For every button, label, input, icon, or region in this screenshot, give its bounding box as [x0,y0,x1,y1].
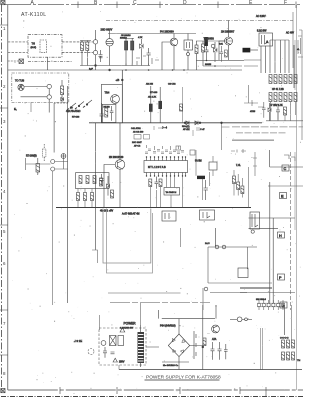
bridge rectifier BR1 [168,334,189,357]
connector pin P1 [93,40,97,44]
diode column D5 [268,103,271,121]
resistor R21 [294,93,297,102]
warning triangle 1 [120,328,125,332]
resistor R22 [284,107,287,115]
output loop L4 [103,209,151,264]
wire left loop: h y283 [208,282,272,284]
svg-text:AC 120V: AC 120V [256,15,266,18]
transformer T2 secondary lines [260,328,262,370]
svg-text:CP 4L 7.2B: CP 4L 7.2B [272,89,284,91]
svg-text:C2 C22: C2 C22 [168,84,176,86]
wire h y228.7 [249,228,279,230]
svg-text:A·AT 4M2·AT 4M: A·AT 4M2·AT 4M [122,213,140,216]
connector tab H [278,232,285,238]
wire h y218 [249,217,296,219]
wire x221.5 stub [222,123,230,150]
electrolytic C6 [131,41,134,50]
wire bridge top rail [162,318,215,320]
svg-text:5.2Ω 5W: 5.2Ω 5W [257,30,267,33]
wire x101.6 up [101,103,103,108]
output line L7 [110,302,210,304]
wire feed x140 from above [140,303,142,325]
bus vertical 5 [280,40,282,73]
capacitor C9 [220,46,224,62]
svg-text:4.7K: 4.7K [138,37,143,39]
transistor Q2 [170,38,178,46]
junction ticks row [126,56,159,66]
wire feeds right x284 [283,305,285,335]
connector pin P3 [47,84,51,88]
wire heavy h y288 [240,287,272,289]
faint vertical x181 [182,87,184,123]
wire +B node [121,70,123,123]
wire IC bottom drops [150,177,182,208]
resistor R2 [86,42,89,51]
svg-text:2SD 880Y: 2SD 880Y [101,28,113,32]
electrolytic C5 [125,41,128,50]
wire Q2 leads [162,34,174,71]
resistor R43 [93,176,96,184]
svg-text:AC 40V: AC 40V [286,32,294,35]
output line L6 [108,292,181,294]
inner bias box [102,104,116,122]
small rect part1 [134,135,141,140]
svg-text:C: C [133,0,137,6]
bus vertical 2 [265,46,267,73]
connector tab 2 [280,302,287,308]
svg-text:TM: TM [297,360,300,362]
transistor Q4 [111,95,120,104]
svg-text:RH+(C): RH+(C) [182,126,190,128]
resistor R37 [237,182,240,190]
wire v x295 [294,152,296,230]
capacitor C2 [99,56,103,58]
svg-text:AT·C2: AT·C2 [134,145,141,148]
resistor R8 [225,50,228,57]
resistor R23 [61,86,64,95]
marks row x230-247 [231,149,246,153]
svg-text:C 47: C 47 [200,129,205,131]
thermistor TH1 inner dashed body [40,40,46,53]
svg-text:C: C [284,167,287,171]
bus vertical 7 [288,40,290,73]
connector tab E [280,193,287,199]
wire v x202.8 [202,305,204,370]
rectifier D11 [287,340,290,348]
svg-text:RT·103: RT·103 [150,92,158,94]
svg-text:42A PB·AT&C: 42A PB·AT&C [66,110,81,113]
junction dots bridge [202,346,204,348]
connector row hatch [257,303,285,307]
resistor R7 [202,44,205,52]
svg-text:PH 2SD880: PH 2SD880 [160,30,174,34]
thermistor box TH1 (dash-dot) [28,35,62,58]
capacitor C1 [99,50,103,62]
capacitor C16 [155,177,159,189]
junction dot bus [109,69,111,71]
svg-text:POWER: POWER [124,322,137,326]
input box dash-dot (TO TUB) [12,73,69,103]
resistor R40 [203,338,206,346]
wire v x269.8 [269,182,271,303]
wire M1 to P3 [24,86,47,88]
wire P5 row [55,158,68,169]
svg-text:H: H [279,234,282,238]
svg-text:2SC 1047: 2SC 1047 [132,142,143,144]
bus vertical 3 [269,40,271,73]
transistor Q5 [115,160,125,170]
capacitor C22 [211,342,215,360]
wire Q1 leads [109,30,111,66]
diode D2 [214,42,217,62]
wire bridge right [190,331,196,359]
wire x248.5 vertical [244,85,253,103]
wire heavy main bus y=123 [89,122,262,124]
wire heavy ground bus y=207.5 [56,207,251,209]
resistor R18 [279,93,282,102]
wire P3-P4 vertical [48,89,50,113]
capacitor C14 [110,106,114,121]
circle node N4 [187,53,190,56]
transistor Q1 (jack symbol) [106,39,113,46]
wire drops below rows [271,102,296,121]
wire h y292.5 right [240,292,295,294]
resistor R29 [43,144,46,161]
small X-box fuse link [19,59,24,64]
resistor R36 [233,176,236,184]
dark block K1 [197,176,205,179]
svg-text:NE 56: NE 56 [104,107,111,109]
svg-text:M= S4VB10 C+: M= S4VB10 C+ [163,365,179,367]
wire below box B [30,103,32,113]
junction marks under rows [252,100,264,107]
main bus wire y=70 [8,69,242,71]
mains enclosure dashed [99,328,146,365]
connector row circles: pin row [257,300,284,310]
wire vertical x53 lower [52,171,54,305]
bias box U2 [184,40,193,50]
output loop L5 [107,209,153,274]
wire C5 C6 leads [124,38,134,66]
wire U2 leads [188,34,197,71]
sub box TA-7045 [164,188,180,196]
capacitor C13 [100,108,104,123]
wire bottom rail y=60 right [196,60,244,66]
resistor R20 [289,93,292,102]
diode cluster on bus D8 [195,121,201,125]
wire long vertical C (x95.3) [94,123,96,250]
wire border stub y52 [8,52,28,54]
junction dot bus2 [221,122,223,124]
svg-text:NTL1207AB: NTL1207AB [148,166,166,169]
resistor R32 [111,190,114,198]
IC U1 pin bubbles [146,156,186,176]
wire cluster leads [234,170,242,198]
main bus wire y=65.5 [80,65,150,67]
diode D9 [107,176,110,196]
resistor row 1: R10 [269,75,272,84]
connector pin P4 [47,95,51,99]
wire bridge bottom [178,357,180,370]
small box above IC 2 [176,146,181,150]
wire right cluster bottom [266,120,303,122]
wire h y247 [208,246,257,248]
bus top rail [270,39,289,41]
svg-text:AT-K110L: AT-K110L [21,12,47,18]
resistor R38 [241,186,244,194]
wire v x203 [203,247,208,310]
svg-text:E,: E, [14,107,17,111]
wire under box A to bus [47,57,49,70]
resistor R19 [284,93,287,102]
wire x196 vertical [195,150,197,176]
wire row2 leads [78,189,92,208]
bus vertical 1 [260,46,262,73]
shield enclosure dash-dot top line [106,20,293,22]
box A lower dash line [28,60,72,62]
bias network box [76,173,110,189]
junction dot [95,65,97,67]
IC U1 [144,161,188,173]
capacitor C12 [276,104,280,120]
small rect part2 [144,135,150,140]
svg-text:47/25: 47/25 [250,111,256,113]
svg-text:47 25V 4.7K: 47 25V 4.7K [270,105,283,107]
wire vertical node B1 [95,30,97,70]
wire x203 x208 verticals [203,172,210,200]
svg-text:100/25: 100/25 [205,64,212,66]
wire v x290.5 dashed [290,152,292,310]
resistor R12 [279,75,282,84]
lamp circle L2 [204,287,208,291]
connector pin P5 [51,160,55,164]
svg-text:AT·4M: AT·4M [183,128,190,131]
svg-text:7.4L: 7.4L [236,164,241,167]
wire border stub y42 [8,41,28,43]
resistor R17 [274,93,277,102]
resistor R15 [294,75,297,84]
divider resistor R25 [149,86,152,123]
rectifier D14 [287,352,290,360]
wire mid rail [196,40,232,42]
IC U1 bottom pins [147,173,186,177]
small box TM2 [209,162,217,170]
wire v x158 [157,310,159,319]
small box CB [238,268,248,278]
rectifier D15 [292,352,295,360]
capacitor C24 [224,344,228,359]
warning triangle 2 [113,358,125,363]
wire feeds right x291.4 [290,305,292,340]
svg-text:TA7805S: TA7805S [204,38,215,41]
component column x101-113: resistor R31 [100,178,103,186]
resistor R5 [195,45,198,54]
left chain: resistor R30 [36,158,40,175]
capacitor C21 [111,352,115,354]
capacitor C8 [205,44,209,60]
connector bracket row [284,155,295,161]
wire F1 lead [250,49,258,51]
resistor R44 (row 2) [77,193,80,201]
bracket mid-left [92,250,98,263]
wire node above R1 R2 [80,41,91,66]
wire bottom rail y369.5 [119,369,302,371]
small circle node [211,44,215,48]
wire fuse to bus [244,60,261,66]
svg-text:250V: 250V [119,362,125,364]
svg-text:PS4 (S4VB10): PS4 (S4VB10) [160,325,176,328]
svg-text:41·C2 100: 41·C2 100 [133,132,144,134]
rotary switch S1 diagonal contacts [67,100,92,110]
resistor R41 [79,176,82,184]
resistor R34 [159,179,162,187]
IC U1 top pins [147,157,186,161]
svg-text:C·C·C·C: C·C·C·C [280,338,289,340]
connector pin P2 [93,50,97,54]
diode cluster on bus D7 [184,121,189,125]
capacitor C11 [262,102,266,118]
divider resistor R26 [159,87,162,123]
output line L3 [232,139,274,141]
vertical right edge line [294,40,296,90]
connector tab C [282,165,289,171]
resistor R13 [284,75,287,84]
svg-text:F: F [284,0,287,6]
caption underline [145,379,220,381]
svg-text:TA·7045 M: TA·7045 M [166,191,177,194]
resistor R45 [84,193,87,201]
wire lower to P4 [21,96,48,98]
wire v x215 [214,228,216,247]
wire rotary to vertical [54,102,69,104]
output line L1 [232,126,303,128]
wire TM2 leads [212,156,214,176]
small box above IC [190,150,195,155]
svg-text:+B: +B [116,78,120,82]
resistor R1 [81,42,84,51]
switch box S3 [118,336,124,346]
capacitor C17 [204,180,209,200]
lamp circles on y247 [215,245,219,249]
svg-text:RT·103(B): RT·103(B) [26,156,37,158]
wire left stub y164 [26,158,51,170]
wire h y186 [268,185,303,187]
pin top leads [147,145,179,150]
wire R7 leads [202,41,204,66]
capacitor C25 [100,174,104,185]
transistor Q3 [225,37,233,45]
circled-plus node [61,154,66,159]
svg-text:24.C: 24.C [205,243,210,245]
small circle node N2 [237,317,242,322]
rectifier bank row1: D10 [282,340,285,348]
junction dots top band [125,60,216,71]
capacitor C20 [103,347,107,358]
output line L2 [236,132,286,134]
wire top right corner [270,150,303,167]
svg-text:⅃ 3 1E: ⅃ 3 1E [74,339,82,343]
fuse F1 dark [243,48,251,53]
resistor row 2: R16 [269,93,272,102]
resistor R24 [105,108,108,117]
wire T1 leads [141,325,160,367]
svg-text:A7A: A7A [212,338,217,341]
transistor Q7 [212,325,220,333]
svg-text:2N 2SB507: 2N 2SB507 [221,30,235,34]
resistor R14 [289,75,292,84]
wire h y293 [210,292,247,294]
wire x200=248 right vertical [248,167,250,208]
svg-text:C41 AT02: C41 AT02 [131,127,141,130]
svg-text:1μF: 1μF [89,69,93,71]
relay box K2 [250,212,260,229]
wire v x180.5 [180,228,182,247]
shield enclosure right edge [292,12,294,68]
resistor R42 [86,176,89,184]
wire TH box to connector J1 [62,42,93,53]
bottom-left circle dashed [88,349,94,355]
wire v x273.2 [272,218,274,303]
capacitor C23 [218,342,222,360]
wire bridge top [178,319,180,334]
svg-text:TR4: TR4 [105,92,110,95]
svg-text:AM 4M: AM 4M [146,83,153,86]
pilot circle N1 [101,341,106,346]
diode D6 [61,97,64,101]
wire Q5 collector [119,123,121,160]
breaker box 1A [259,33,273,46]
wire feed x99.5 [99,315,101,330]
svg-text:986 988-9: 986 988-9 [256,299,267,301]
diode D1 [140,39,144,66]
switch box S2 [110,336,117,346]
pin components row above IC: capacitor C15 [145,149,184,154]
small circle node N3 [245,318,248,321]
svg-text:TO TU8: TO TU8 [15,79,25,83]
pilot lamp circle [251,230,254,233]
wire v x247.3 [246,247,248,269]
svg-text:C5 100/16: C5 100/16 [121,35,131,37]
rectifier D12 [292,340,295,348]
rectifier bank row2: D13 [282,352,285,360]
svg-text:4M 4.7K: 4M 4.7K [148,97,157,99]
bus vertical 8 [293,45,295,88]
bus vertical 4 [274,40,276,73]
wire top rail y=38.5 [108,33,196,35]
transformer T1 primary (striped) [138,332,145,363]
connector tab P [278,274,285,280]
wire stub left of rail [118,365,120,370]
capacitor C7 [147,48,151,66]
connector pin P6 [51,167,55,171]
regulator block dark [204,37,208,46]
wire v x216 [215,305,217,319]
resistor R27 [180,104,183,111]
bottom components: resistor R33 [149,179,152,187]
svg-text:RT·103: RT·103 [72,117,80,119]
amp box Q4 [101,84,122,122]
wire R23 leads [61,80,63,103]
right edge clutter marks [298,30,303,140]
wire node row [216,305,252,319]
wire left stub [8,60,19,62]
wire x255 stub [253,152,257,176]
resistor R46 [91,193,94,201]
wire Q5 emitter [104,165,120,208]
svg-text:D: D [183,0,187,6]
wire Q3 leads [219,21,229,61]
svg-text:(BLK): (BLK) [31,47,37,49]
